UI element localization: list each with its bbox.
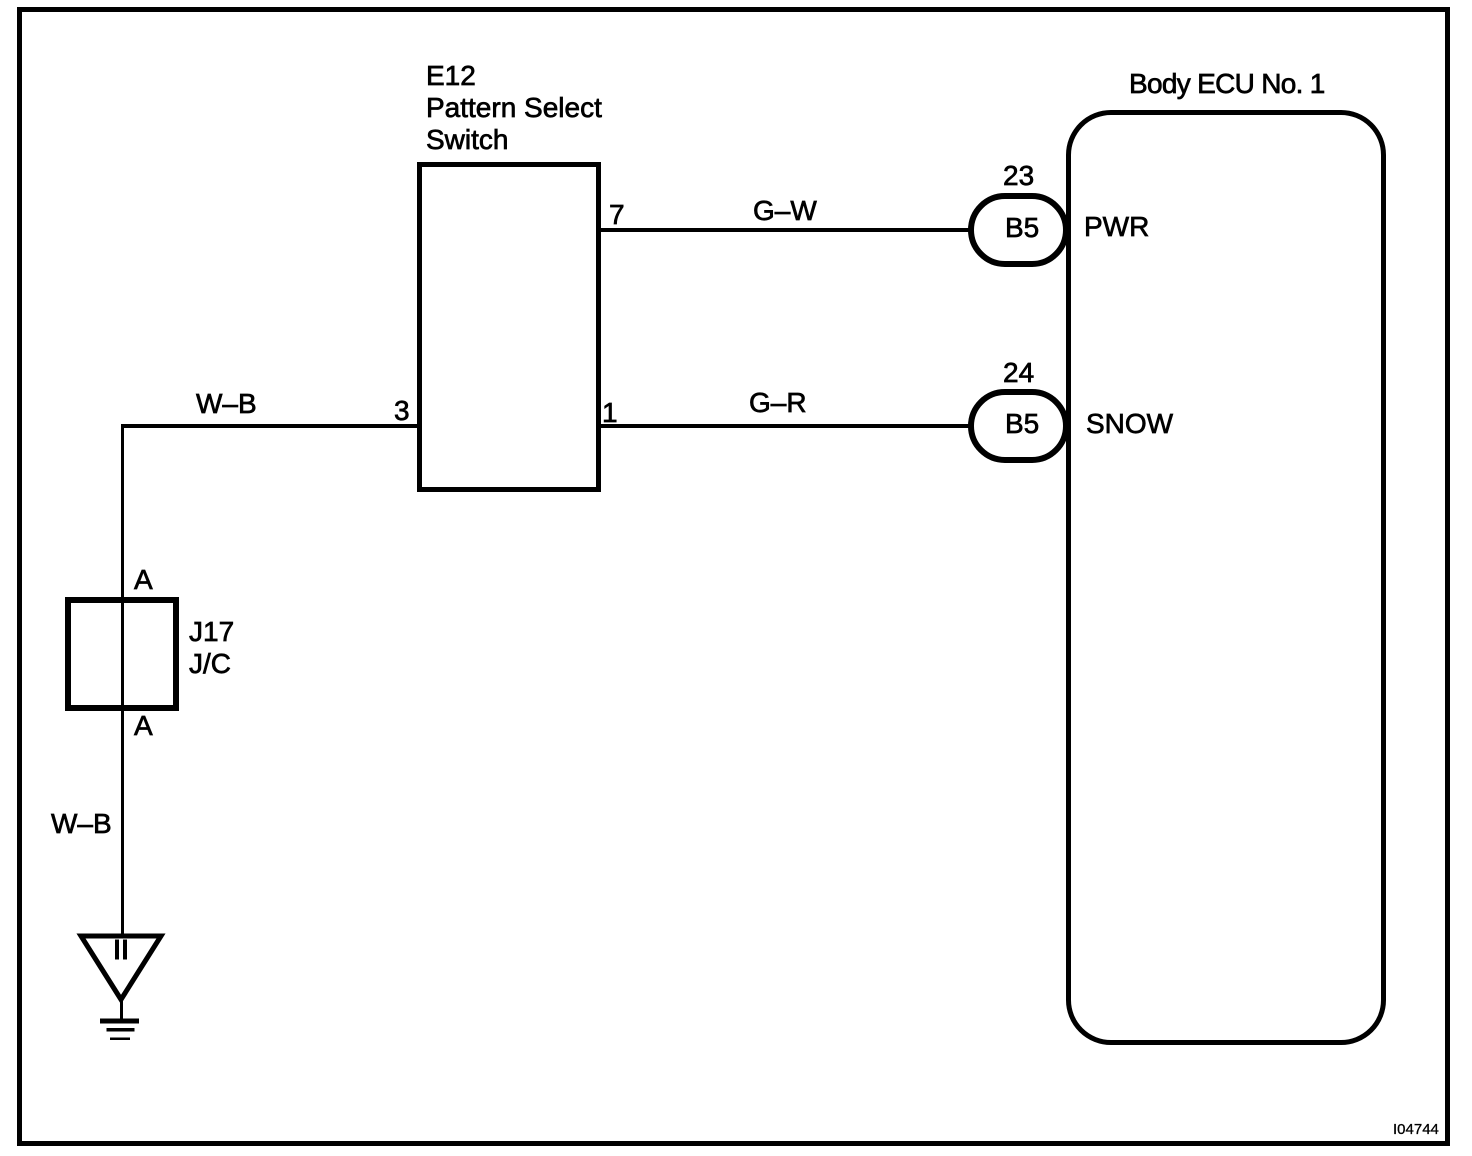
label B5 (pin23) [1005,214,1039,242]
pin 3 label [394,397,410,425]
figure id I04744 [1393,1122,1439,1137]
pin 7 label [609,201,625,229]
connector oval B5 pin24 [968,389,1069,463]
label G-R [749,389,807,417]
pin number 24 [1003,359,1034,387]
wire G-R pin1 to B5(24) [601,424,969,428]
pin A upper [134,566,153,594]
connector oval B5 pin23 [968,193,1069,267]
pin 1 label [602,399,618,427]
wire W-B horizontal pin3 [122,424,417,428]
ground symbol [60,925,190,1050]
junction J17 label [189,616,234,680]
Body ECU box [1066,110,1386,1045]
wire W-B vertical [121,424,124,934]
terminal label SNOW [1086,410,1173,438]
pin number 23 [1003,162,1034,190]
pin A lower [134,712,153,740]
switch E12 box [417,162,601,492]
label W-B upper [196,390,257,418]
terminal label PWR [1084,213,1149,241]
switch E12 label [426,60,602,156]
wire G-W pin7 to B5(23) [601,228,969,232]
label W-B lower [51,810,112,838]
label B5 (pin24) [1005,410,1039,438]
label G-W [753,197,817,225]
junction J17 box [65,597,179,711]
label Body ECU No. 1 [1129,70,1325,98]
